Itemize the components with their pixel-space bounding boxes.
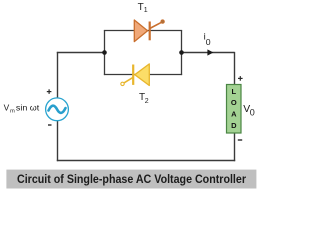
wire: top right horizontal [182,52,235,54]
wire: branch bottom horizontal [104,74,182,76]
wire: top left horizontal [57,52,105,54]
wire: bottom horizontal [57,160,235,162]
svg-text:A: A [231,109,237,118]
wire: branch left vertical [104,30,106,75]
wire: left vertical [57,52,59,99]
svg-text:O: O [231,98,237,107]
wire: branch right vertical [181,30,183,75]
wire: right vertical upper [234,52,236,85]
label source plus [47,89,52,94]
node: left junction [102,50,107,55]
load block [227,85,242,134]
svg-text:m: m [10,108,15,114]
label source minus [48,124,52,126]
wire: left vertical lower [57,120,59,161]
thyristor T2 [121,64,150,86]
label load plus [238,76,243,81]
AC source Vs [46,98,69,121]
svg-text:0: 0 [250,108,255,118]
svg-text:0: 0 [206,37,211,47]
svg-text:Circuit of Single-phase AC Vol: Circuit of Single-phase AC Voltage Contr… [17,172,246,186]
svg-text:1: 1 [144,7,148,14]
node: right junction [179,50,184,55]
svg-text:2: 2 [145,98,149,105]
thyristor T1 [134,20,164,42]
wire: branch top horizontal [104,30,182,32]
svg-text:V: V [4,103,10,113]
current arrow i0 [207,49,213,55]
svg-text:D: D [231,121,237,130]
svg-text:L: L [232,87,237,96]
label load minus [238,139,242,141]
title bar [6,170,256,189]
svg-text:sin ωt: sin ωt [16,103,40,113]
wire: right vertical lower [234,133,236,161]
